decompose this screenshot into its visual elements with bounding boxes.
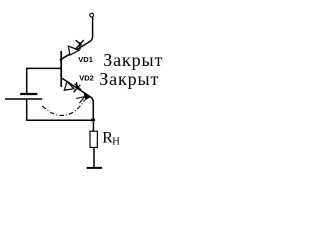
wire junction to resistor — [92, 122, 94, 131]
svg-text:VD1: VD1 — [78, 55, 93, 64]
svg-text:Закрыт: Закрыт — [99, 69, 159, 89]
diode VD2 triangle — [64, 82, 74, 91]
arc open arrowhead — [76, 97, 85, 104]
svg-text:VD2: VD2 — [79, 74, 94, 83]
svg-text:H: H — [112, 137, 120, 148]
current path arc (dash-dot) — [42, 100, 84, 116]
diode VD2 cross stroke b — [75, 84, 82, 91]
diode VD2 cross stroke a — [74, 85, 81, 93]
battery plate thin (bottom) — [5, 98, 42, 100]
resistor RH body — [90, 131, 97, 147]
wire resistor to output — [93, 147, 95, 167]
output bar — [87, 167, 102, 169]
diode VD1 cathode bar — [79, 42, 82, 49]
node bar (base) — [60, 51, 62, 87]
wire base to battery — [27, 68, 61, 93]
wire VD2 diagonal — [62, 78, 93, 118]
input terminal — [90, 13, 94, 17]
wire input vertical — [90, 17, 92, 41]
diode VD1 cross stroke b — [75, 40, 84, 50]
arrowhead on VD2 wire (filled) — [84, 94, 90, 100]
battery plate thick (top) — [20, 93, 37, 95]
junction node dot — [91, 119, 95, 122]
wire VD1 diagonal — [60, 41, 90, 60]
wire battery down and bottom — [27, 100, 94, 121]
svg-text:Закрыт: Закрыт — [103, 50, 163, 70]
diode VD2 cathode bar — [76, 82, 79, 88]
diode VD1 cross stroke a — [76, 40, 82, 45]
diode VD1 triangle — [68, 46, 79, 55]
